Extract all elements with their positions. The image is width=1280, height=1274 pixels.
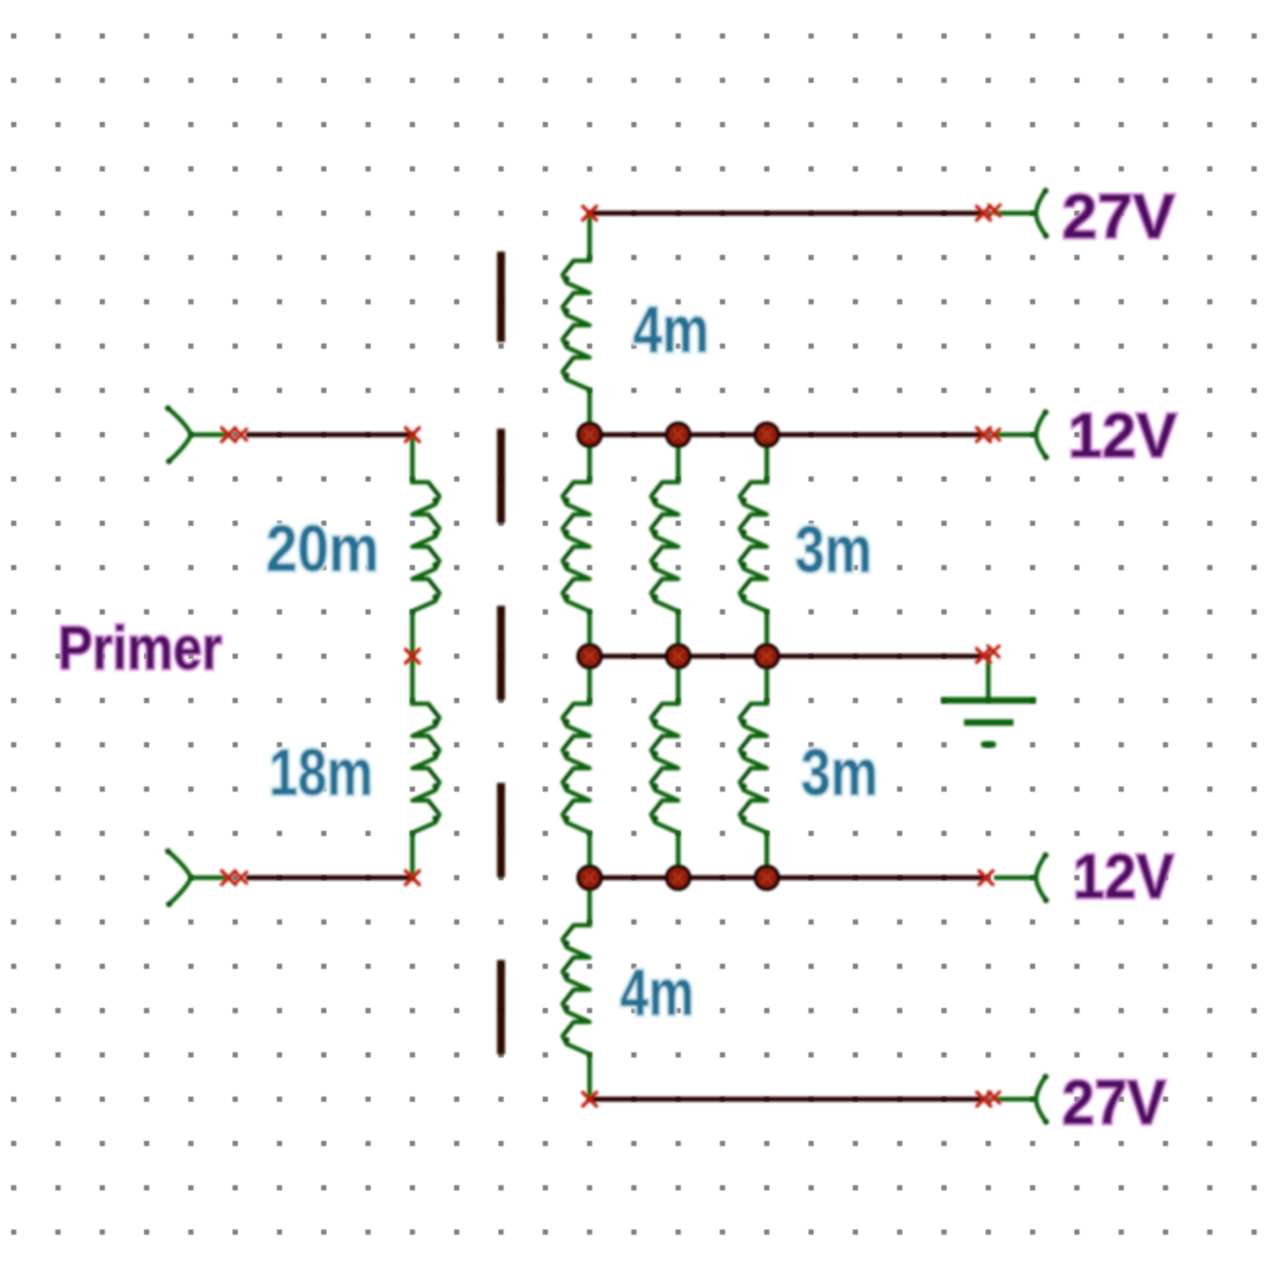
- pin x-mark primary port lower b: [235, 872, 246, 883]
- svg-text:4m: 4m: [620, 955, 694, 1029]
- inductor L3 4m (secondary top): [563, 213, 590, 435]
- svg-text:27V: 27V: [1062, 1068, 1166, 1138]
- junction J1: [578, 423, 601, 446]
- wire primary top: [246, 432, 412, 437]
- wire stub port 12V lower: [994, 875, 1036, 880]
- transformer core (dashed line): [497, 252, 505, 1055]
- wire ground rail: [590, 654, 984, 659]
- pin x-mark L2 bottom: [406, 871, 420, 885]
- junction J9: [755, 866, 778, 889]
- pin x-mark 27V bottom right b: [988, 1092, 999, 1103]
- pin x-mark ground right a: [977, 649, 991, 663]
- svg-text:3m: 3m: [795, 512, 872, 586]
- svg-text:27V: 27V: [1062, 182, 1175, 252]
- ground symbol: [941, 656, 1036, 744]
- wire primary bottom: [246, 875, 412, 880]
- wire 12V upper rail: [590, 432, 984, 437]
- junction J3: [755, 423, 778, 446]
- pin x-mark 27V bottom right a: [977, 1092, 991, 1106]
- junction J8: [667, 866, 690, 889]
- wire stub port 27V bottom: [994, 1097, 1036, 1102]
- pin x-mark 12V upper right a: [977, 428, 991, 442]
- wire 27V top rail: [590, 211, 984, 216]
- pin x-mark 27V top right b: [989, 205, 1000, 216]
- inductor L10 4m (secondary bottom): [563, 878, 590, 1099]
- inductor L8 3m-col2 lower: [651, 656, 678, 878]
- svg-text:3m: 3m: [801, 735, 878, 809]
- pin x-mark 12V lower right: [979, 871, 993, 885]
- pin x-mark 27V top right a: [977, 206, 991, 220]
- junction J7: [578, 866, 601, 889]
- svg-text:4m: 4m: [633, 292, 709, 366]
- inductor L9 3m-col3 lower: [740, 656, 767, 878]
- pin x-mark primary port upper b: [235, 429, 246, 440]
- pin x-mark primary port upper a: [222, 428, 236, 442]
- junction J4: [578, 645, 601, 668]
- inductor L5 3m-col2 upper: [651, 435, 678, 657]
- svg-text:18m: 18m: [269, 735, 373, 809]
- port flag 12V lower: [1036, 852, 1049, 903]
- junction J6: [755, 645, 778, 668]
- junction J2: [667, 423, 690, 446]
- pin x-mark ground right b: [988, 646, 999, 657]
- svg-text:12V: 12V: [1068, 401, 1177, 471]
- wire 12V lower rail: [590, 875, 984, 880]
- port flag 27V top: [1036, 188, 1049, 239]
- port terminal lower primary: [165, 848, 232, 907]
- svg-text:20m: 20m: [266, 511, 379, 585]
- pin x-mark 27V bottom left: [583, 1092, 597, 1106]
- inductor L2 18m (primary lower): [412, 656, 439, 878]
- port flag 12V upper: [1036, 409, 1049, 460]
- pin x-mark primary port lower a: [222, 871, 236, 885]
- svg-text:Primer: Primer: [58, 614, 222, 682]
- pin x-mark 12V upper right b: [988, 429, 999, 440]
- inductor L7 3m-col1 lower: [563, 656, 590, 878]
- pin x-mark 27V top left: [583, 206, 597, 220]
- svg-text:12V: 12V: [1073, 842, 1174, 912]
- wire stub port 12V upper: [994, 432, 1036, 437]
- wire stub port 27V top: [994, 211, 1036, 216]
- pin x-mark L1 top: [406, 428, 420, 442]
- inductor L4 3m-col1 upper: [563, 435, 590, 657]
- junction J5: [667, 645, 690, 668]
- pin x-mark L1/L2 junction: [406, 649, 420, 663]
- wire 27V bottom rail: [590, 1097, 984, 1102]
- port terminal upper primary: [165, 405, 232, 464]
- inductor L6 3m-col3 upper: [740, 435, 767, 657]
- port flag 27V bottom: [1036, 1074, 1049, 1125]
- inductor L1 20m (primary upper): [412, 435, 439, 657]
